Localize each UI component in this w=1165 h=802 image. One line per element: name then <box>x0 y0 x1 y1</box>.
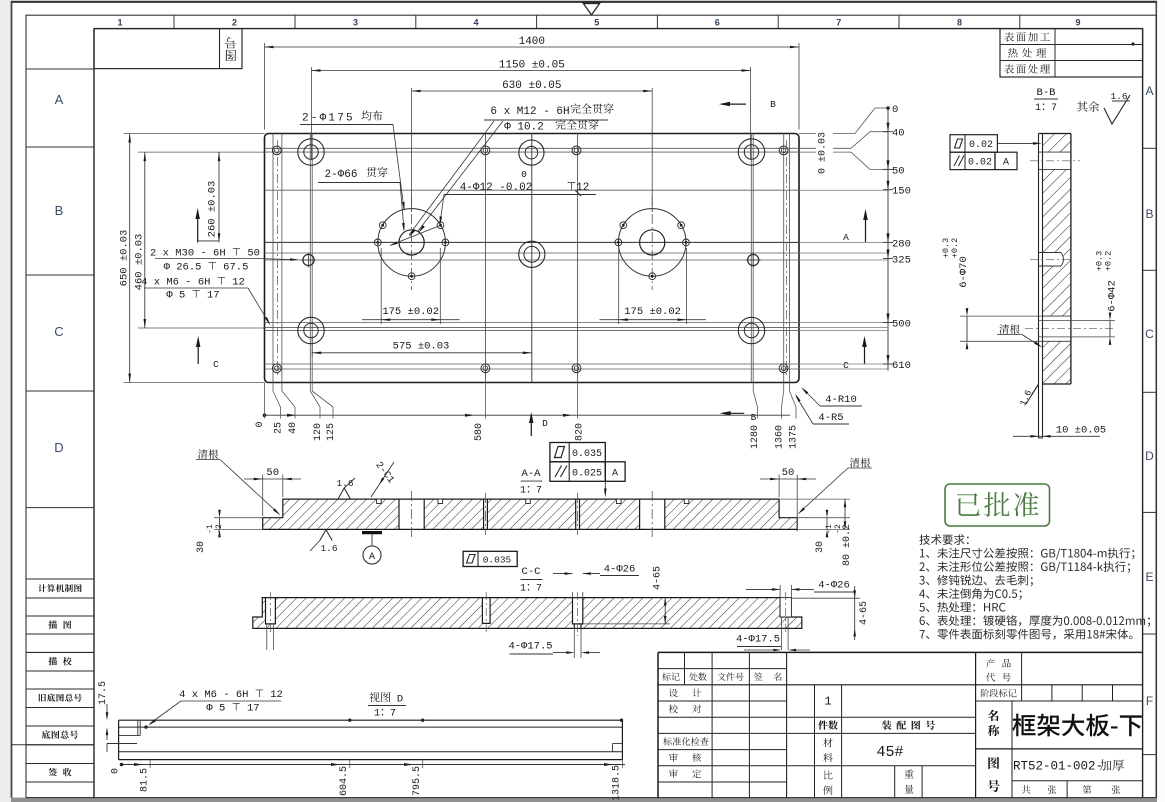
svg-text:3: 3 <box>353 17 358 27</box>
svg-text:80 ±0.2: 80 ±0.2 <box>842 524 853 566</box>
svg-text:RT52-01-002-: RT52-01-002- <box>1013 760 1103 774</box>
dim 50 right (A-A) <box>778 475 780 498</box>
svg-text:4-65: 4-65 <box>653 566 664 590</box>
svg-text:F: F <box>1146 694 1153 708</box>
datum A target <box>362 531 382 534</box>
centering mark triangle <box>583 3 599 15</box>
svg-text:125: 125 <box>326 423 337 441</box>
svg-text:D: D <box>54 440 63 455</box>
svg-text:580: 580 <box>474 423 485 441</box>
svg-text:A: A <box>612 469 618 480</box>
svg-text:0.025: 0.025 <box>572 469 602 480</box>
dim 4-65 right end <box>791 597 860 599</box>
svg-text:17.5: 17.5 <box>98 681 109 705</box>
svg-text:0.02: 0.02 <box>969 140 993 151</box>
svg-text:1400: 1400 <box>519 36 545 48</box>
view D bar <box>119 719 623 721</box>
svg-text:D: D <box>397 694 403 706</box>
svg-text:0 ±0.03: 0 ±0.03 <box>818 132 829 174</box>
surface treatment table <box>1000 29 1143 77</box>
dim 1150 +-0.05 <box>311 67 313 160</box>
C-C FCF 0.035 <box>463 551 517 566</box>
svg-text:500: 500 <box>892 319 911 331</box>
section arrow B bottom <box>723 412 745 414</box>
section arrow C left <box>197 339 199 364</box>
svg-text:25: 25 <box>274 422 285 434</box>
dim 10 +-0.05 <box>1013 435 1100 437</box>
svg-text:+0.2: +0.2 <box>1104 251 1114 271</box>
section arrow C right <box>864 339 866 364</box>
svg-text:1：7: 1：7 <box>520 486 542 497</box>
svg-text:C: C <box>1145 327 1154 341</box>
finish 1.6 below bar <box>320 530 332 541</box>
svg-text:50: 50 <box>782 467 795 479</box>
svg-text:B: B <box>770 99 776 110</box>
section arrow B top <box>722 103 746 105</box>
center counterbore hole <box>519 241 545 267</box>
dim 260 +-0.03 <box>218 152 220 242</box>
qinggen right (A-A) <box>850 458 870 468</box>
svg-text:4-Φ17.5: 4-Φ17.5 <box>508 641 552 653</box>
section arrow D bottom <box>530 415 532 436</box>
svg-text:120: 120 <box>313 423 324 441</box>
svg-text:150: 150 <box>892 186 911 198</box>
bolt circle centerlines <box>411 196 413 290</box>
page edge <box>11 2 13 799</box>
svg-text:Φ 5 ⊤ 17: Φ 5 ⊤ 17 <box>166 290 219 302</box>
svg-text:A: A <box>55 92 64 107</box>
main view plate outline <box>265 134 800 383</box>
view D right step <box>613 743 623 745</box>
svg-text:45#: 45# <box>876 744 903 761</box>
plate horizontal step lines <box>265 147 800 149</box>
svg-text:-1: -1 <box>825 524 834 534</box>
svg-text:81.5: 81.5 <box>140 768 151 792</box>
view D dots <box>144 725 147 728</box>
svg-text:4-65: 4-65 <box>859 601 870 625</box>
centerlines C-C <box>270 592 272 634</box>
bolt circles Phi175 with Phi66 center holes <box>378 209 446 277</box>
svg-text:E: E <box>1145 570 1153 584</box>
svg-text:0: 0 <box>255 421 266 427</box>
top edge center counterbore <box>519 140 544 165</box>
svg-text:4-R10: 4-R10 <box>825 394 857 406</box>
right end hole C-C <box>780 598 791 617</box>
dim 650 +-0.03 <box>124 133 265 135</box>
svg-text:C: C <box>54 324 63 339</box>
dim 4-65 middle <box>583 623 670 625</box>
svg-text:175 ±0.02: 175 ±0.02 <box>624 306 681 318</box>
B-B feature control frames <box>950 135 997 153</box>
dim 575 <box>311 336 313 357</box>
svg-text:0.035: 0.035 <box>572 449 602 460</box>
svg-text:260 ±0.03: 260 ±0.03 <box>207 181 219 238</box>
boss detail <box>1039 252 1062 254</box>
edge small holes M12 <box>272 146 281 155</box>
fold mark <box>11 744 94 746</box>
view D label <box>369 692 390 702</box>
title block texts <box>662 673 680 681</box>
ordinate stubs <box>264 383 266 419</box>
view D ordinate rail <box>122 764 626 766</box>
svg-text:630 ±0.05: 630 ±0.05 <box>502 80 561 92</box>
section A-A bar <box>263 499 798 529</box>
svg-text:820: 820 <box>575 423 586 441</box>
svg-text:2-Φ175: 2-Φ175 <box>302 113 355 125</box>
svg-text:5: 5 <box>594 17 599 27</box>
svg-text:6-Φ42: 6-Φ42 <box>1107 280 1119 312</box>
section arrow A right <box>865 212 867 242</box>
svg-text:6 x M12 - 6H: 6 x M12 - 6H <box>490 106 569 118</box>
svg-text:795.5: 795.5 <box>412 766 423 796</box>
qinggen left (A-A) <box>198 449 218 459</box>
dim 6-Phi70 <box>966 316 968 341</box>
svg-text:4 x M6 - 6H ⊤ 12: 4 x M6 - 6H ⊤ 12 <box>179 689 283 701</box>
svg-text:40: 40 <box>892 128 905 140</box>
svg-text:4-R5: 4-R5 <box>818 412 843 424</box>
svg-text:+0.2: +0.2 <box>950 238 960 258</box>
svg-text:50: 50 <box>892 165 905 177</box>
right ordinate dimensions <box>887 108 889 371</box>
svg-text:A: A <box>369 552 375 563</box>
svg-text:30: 30 <box>815 541 826 553</box>
dim 1400 <box>264 43 266 130</box>
svg-text:-2: -2 <box>215 524 224 534</box>
svg-text:A: A <box>843 232 849 243</box>
corner counterbore holes <box>298 139 324 165</box>
title block <box>658 651 1143 653</box>
finish mark bottom B-B <box>1011 389 1040 406</box>
svg-text:0.02: 0.02 <box>968 158 992 169</box>
view D left step <box>137 720 139 735</box>
svg-text:C: C <box>213 359 219 370</box>
svg-text:10 ±0.05: 10 ±0.05 <box>1056 425 1106 437</box>
svg-text:2: 2 <box>232 17 237 27</box>
svg-text:1: 1 <box>824 695 831 709</box>
zone number band <box>173 15 175 28</box>
svg-text:A: A <box>1145 84 1153 98</box>
svg-text:4 x M6 - 6H ⊤ 12: 4 x M6 - 6H ⊤ 12 <box>141 277 245 289</box>
approved stamp <box>945 484 1050 526</box>
svg-text:604.5: 604.5 <box>339 766 350 796</box>
section C-C bar <box>253 598 802 629</box>
top notches (counterbore holes) <box>377 499 382 503</box>
svg-text:1：7: 1：7 <box>520 584 542 595</box>
rotated 0+-0.03 label <box>816 128 833 178</box>
svg-text:2-Φ66: 2-Φ66 <box>324 169 357 181</box>
svg-text:175 ±0.02: 175 ±0.02 <box>382 306 439 318</box>
inner frame <box>93 29 95 798</box>
dim 30 right + 80 right (A-A) <box>797 517 850 519</box>
svg-text:1.6: 1.6 <box>320 543 337 554</box>
finish 1.6 above bar <box>338 488 350 499</box>
svg-text:650 ±0.03: 650 ±0.03 <box>119 230 131 287</box>
bottom ordinate dimensions <box>265 414 791 416</box>
svg-text:40: 40 <box>288 422 299 434</box>
dim 175 left <box>380 248 382 324</box>
svg-text:4-Φ17.5: 4-Φ17.5 <box>736 634 780 646</box>
svg-text:50: 50 <box>266 467 279 479</box>
svg-text:1280: 1280 <box>750 425 761 449</box>
svg-text:8: 8 <box>957 17 962 27</box>
svg-text:D: D <box>1145 449 1154 463</box>
svg-text:1: 1 <box>117 17 122 27</box>
svg-text:C-C: C-C <box>522 566 541 578</box>
svg-text:4: 4 <box>473 17 478 27</box>
svg-text:0.035: 0.035 <box>483 555 512 566</box>
plate vertical step lines <box>272 134 274 383</box>
svg-text:1318.5: 1318.5 <box>612 765 623 801</box>
svg-text:B: B <box>55 203 64 218</box>
M30 side holes <box>303 254 314 265</box>
part name <box>1012 714 1141 737</box>
top-left drawing-number box <box>94 29 242 69</box>
svg-text:4-Φ26: 4-Φ26 <box>604 564 636 576</box>
section line A-A horizontal centerline <box>265 241 800 243</box>
svg-text:0: 0 <box>521 169 527 180</box>
svg-text:575 ±0.03: 575 ±0.03 <box>393 341 450 353</box>
dim 460 +-0.03 <box>138 151 265 153</box>
A-A FCF stack <box>550 443 605 462</box>
svg-text:1375: 1375 <box>789 425 800 449</box>
svg-text:Φ 26.5 ⊤ 67.5: Φ 26.5 ⊤ 67.5 <box>164 262 249 274</box>
dim 30 left (A-A) <box>214 517 263 519</box>
svg-text:1360: 1360 <box>775 425 786 449</box>
svg-text:610: 610 <box>892 360 911 372</box>
svg-text:1：7: 1：7 <box>374 709 396 720</box>
svg-text:280: 280 <box>892 238 911 250</box>
left zone column <box>26 68 94 70</box>
svg-text:7: 7 <box>836 17 841 27</box>
svg-text:-1: -1 <box>206 524 215 534</box>
svg-text:Φ 5 ⊤ 17: Φ 5 ⊤ 17 <box>206 703 259 715</box>
svg-text:0: 0 <box>892 104 898 116</box>
surface finish: 其余 1.6 <box>1077 101 1099 112</box>
svg-text:1.6: 1.6 <box>336 478 353 489</box>
svg-text:6: 6 <box>715 17 720 27</box>
svg-text:B-B: B-B <box>1037 87 1056 99</box>
svg-text:D: D <box>542 418 548 429</box>
svg-text:Φ 10.2: Φ 10.2 <box>504 122 544 134</box>
right zone column <box>1143 147 1157 149</box>
svg-text:1.6: 1.6 <box>1110 91 1127 102</box>
dim 175 right <box>618 248 620 324</box>
ordinate 0/40/50 jogs <box>799 133 855 135</box>
svg-text:1：7: 1：7 <box>1035 103 1057 114</box>
svg-text:A-A: A-A <box>522 468 542 480</box>
svg-text:B: B <box>751 412 757 423</box>
svg-text:2 x M30 - 6H ⊤ 50: 2 x M30 - 6H ⊤ 50 <box>150 248 260 260</box>
svg-text:A: A <box>1003 158 1009 169</box>
svg-text:30: 30 <box>196 541 207 553</box>
section arrow A left <box>197 211 199 242</box>
dim 50 left (A-A) <box>262 475 264 517</box>
qinggen label B-B <box>999 324 1019 334</box>
svg-text:6-Φ70: 6-Φ70 <box>958 256 970 288</box>
svg-text:4-Φ26: 4-Φ26 <box>818 580 850 592</box>
dim 6-Phi42 <box>1109 321 1111 337</box>
svg-text:325: 325 <box>892 255 911 267</box>
B-B geometry <box>1039 134 1071 439</box>
technical requirements text <box>919 534 968 545</box>
svg-text:1150 ±0.05: 1150 ±0.05 <box>499 60 565 72</box>
svg-text:4-Φ12 -0.02: 4-Φ12 -0.02 <box>460 182 533 194</box>
svg-text:9: 9 <box>1075 17 1080 27</box>
svg-text:B: B <box>1145 207 1153 221</box>
dim 630 +-0.05 <box>411 88 413 212</box>
left filing boxes <box>26 578 94 580</box>
svg-text:0: 0 <box>111 768 122 774</box>
